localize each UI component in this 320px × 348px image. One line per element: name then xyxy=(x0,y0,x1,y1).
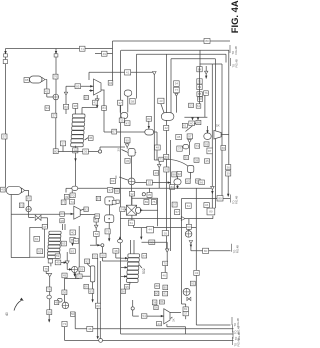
funnel valve xyxy=(153,72,157,75)
wire CV4 bottom xyxy=(166,120,168,249)
svg-text:37: 37 xyxy=(108,188,112,192)
svg-text:80: 80 xyxy=(218,196,222,200)
wire xyxy=(101,247,103,261)
svg-text:40: 40 xyxy=(1,188,5,192)
valve bow xyxy=(187,297,191,300)
wire xyxy=(95,236,97,245)
node box xyxy=(44,266,49,271)
svg-text:76: 76 xyxy=(54,75,58,79)
svg-text:65: 65 xyxy=(62,242,66,246)
node stream 36 box xyxy=(102,106,107,111)
valve xyxy=(64,92,67,95)
node box xyxy=(118,100,123,105)
svg-text:78: 78 xyxy=(47,287,51,291)
node stream 14 box xyxy=(102,51,108,56)
svg-text:44: 44 xyxy=(148,228,152,232)
node box xyxy=(154,291,159,295)
node big box on bus xyxy=(207,148,213,154)
svg-text:66: 66 xyxy=(85,285,89,289)
wire xyxy=(227,176,229,196)
node box xyxy=(130,98,135,104)
node stream 16 box xyxy=(204,39,210,44)
wire y198 line xyxy=(182,198,218,200)
wire diagonal xyxy=(186,122,198,132)
node box left edge xyxy=(110,179,115,184)
node box xyxy=(194,158,199,162)
wire xyxy=(119,105,121,112)
svg-text:89: 89 xyxy=(145,200,149,204)
wire T1 left drop xyxy=(65,86,67,92)
node box xyxy=(83,149,89,154)
mixer circle xyxy=(72,266,78,272)
vessel small drum xyxy=(127,149,136,156)
wire y329 line xyxy=(75,328,233,330)
node box right of T1 xyxy=(84,95,88,99)
wire CVc out right xyxy=(154,131,157,133)
column 400 trays xyxy=(47,231,61,258)
node box xyxy=(70,249,75,254)
node box chain xyxy=(197,67,202,72)
node box xyxy=(159,157,164,161)
node box xyxy=(94,217,99,222)
wire xyxy=(123,119,125,122)
svg-text:38: 38 xyxy=(153,301,157,305)
svg-text:35: 35 xyxy=(148,193,152,197)
node box on line xyxy=(170,185,175,190)
svg-text:84: 84 xyxy=(102,106,106,110)
junction circle small xyxy=(101,244,104,247)
svg-text:53: 53 xyxy=(148,181,152,185)
svg-text:65: 65 xyxy=(38,249,42,253)
svg-text:48: 48 xyxy=(55,301,59,305)
svg-text:73: 73 xyxy=(62,200,66,204)
wire thin col down xyxy=(92,282,94,302)
wire chain xyxy=(199,67,201,104)
node box xyxy=(26,196,31,201)
svg-text:45: 45 xyxy=(89,136,93,140)
wire col top risers xyxy=(62,224,64,230)
wire xyxy=(157,198,159,226)
svg-text:FIG.4B: FIG.4B xyxy=(235,196,239,204)
node box xyxy=(189,103,194,107)
wire xyxy=(103,90,105,106)
node box xyxy=(154,306,158,310)
vessel 20 capsule xyxy=(30,76,46,83)
svg-text:90: 90 xyxy=(101,253,105,257)
flow arrow xyxy=(4,51,6,54)
wire xyxy=(96,102,98,107)
svg-text:98: 98 xyxy=(25,78,29,82)
node box xyxy=(146,180,152,185)
wire arrow into CVc xyxy=(148,118,150,129)
wire xyxy=(126,147,128,148)
enclosure box xyxy=(30,227,45,257)
wire T3 out xyxy=(170,311,181,313)
node label box pointer xyxy=(120,207,125,212)
svg-text:37: 37 xyxy=(53,114,57,118)
wire xyxy=(108,205,110,215)
node box xyxy=(172,172,177,177)
node box xyxy=(46,287,51,291)
svg-text:49: 49 xyxy=(63,274,67,278)
node box below mixer xyxy=(128,220,134,225)
svg-text:70: 70 xyxy=(71,193,75,197)
valve tri xyxy=(48,273,52,276)
wire up from junction xyxy=(99,147,101,150)
node box xyxy=(204,203,209,208)
wire xyxy=(189,143,191,155)
wire end + TO FIG 4B xyxy=(223,198,230,200)
wire xyxy=(74,273,76,276)
node box xyxy=(176,134,182,139)
node box pair xyxy=(183,307,188,311)
wire xyxy=(185,316,187,319)
node box xyxy=(175,210,180,215)
node box xyxy=(197,84,202,89)
wire xyxy=(156,150,158,160)
node box xyxy=(163,291,168,296)
wire T1 bottom out xyxy=(96,95,98,99)
TO FIG 4B xyxy=(233,337,241,347)
node box xyxy=(53,149,58,154)
wire mixer down xyxy=(131,185,133,205)
node box xyxy=(105,229,110,234)
svg-text:75: 75 xyxy=(152,200,156,204)
funnel xyxy=(188,139,192,142)
node stream box xyxy=(1,187,6,192)
wire manifold xyxy=(184,116,207,118)
wire xyxy=(164,266,166,273)
wire pump bus xyxy=(55,49,57,95)
node box xyxy=(172,202,177,207)
svg-text:81: 81 xyxy=(184,307,188,311)
TO FIG 4B xyxy=(233,325,241,335)
svg-text:32: 32 xyxy=(130,192,134,196)
svg-text:2X: 2X xyxy=(117,148,121,152)
svg-text:45: 45 xyxy=(205,159,209,163)
node box above mixer xyxy=(129,191,134,196)
svg-text:59: 59 xyxy=(48,310,52,314)
node stream box xyxy=(52,113,57,118)
node box xyxy=(182,123,187,128)
valve sym xyxy=(211,186,215,189)
compressor T2 xyxy=(74,206,80,219)
svg-text:53: 53 xyxy=(189,104,193,108)
wire xyxy=(95,222,97,225)
node box xyxy=(70,237,75,242)
svg-text:80: 80 xyxy=(54,149,58,153)
pump ellipse xyxy=(185,231,192,238)
svg-text:46: 46 xyxy=(205,203,209,207)
wire right-edge bus x228.8 xyxy=(228,50,230,164)
wire under mixer xyxy=(120,218,213,220)
vessel capsule next to mixer xyxy=(135,207,141,213)
node box xyxy=(55,254,60,258)
svg-text:98: 98 xyxy=(173,173,177,177)
svg-text:36: 36 xyxy=(88,327,92,331)
svg-text:69: 69 xyxy=(111,179,115,183)
wire line y72 xyxy=(89,71,153,73)
wire xyxy=(127,96,129,112)
column 502 trays xyxy=(127,254,140,283)
node stream 30 box xyxy=(73,104,78,109)
node box xyxy=(74,239,79,244)
wire xyxy=(82,275,90,277)
wire riser x89 xyxy=(88,72,90,80)
wire oval drop xyxy=(71,190,73,193)
node box xyxy=(147,226,154,233)
valve tick xyxy=(175,93,178,96)
node box pair xyxy=(187,134,192,139)
wire oval right long xyxy=(78,187,211,189)
TO FIG 4B mid-bottom xyxy=(233,331,241,341)
svg-text:77: 77 xyxy=(175,88,179,92)
svg-text:FIG.4B: FIG.4B xyxy=(235,245,239,253)
node box xyxy=(204,142,209,147)
svg-text:FIG.4B: FIG.4B xyxy=(237,326,241,334)
wire xyxy=(205,66,207,71)
wire col bottom xyxy=(50,259,52,266)
TO FIG 4B xyxy=(232,317,240,327)
vessel oval xyxy=(174,179,181,185)
flow arrow out xyxy=(140,209,143,211)
flow arrow xyxy=(168,181,171,183)
wire bus corner to bottom line xyxy=(121,333,234,335)
node box w/ drive xyxy=(161,273,167,279)
svg-text:87: 87 xyxy=(27,197,31,201)
node box xyxy=(125,158,130,163)
node box xyxy=(217,196,223,201)
node small box xyxy=(60,219,64,223)
wire second horizontal xyxy=(134,227,197,229)
pump circle xyxy=(183,288,190,295)
node box xyxy=(89,289,94,293)
svg-text:66: 66 xyxy=(222,146,226,150)
wire top header line xyxy=(6,48,113,50)
svg-text:99: 99 xyxy=(126,138,130,142)
svg-text:73: 73 xyxy=(196,144,200,148)
wire col C3 bottom xyxy=(129,282,131,285)
svg-text:36: 36 xyxy=(227,165,231,169)
wire xyxy=(126,143,128,144)
valve flag xyxy=(205,71,208,74)
wire xyxy=(188,219,190,225)
svg-text:83: 83 xyxy=(96,304,100,308)
node box xyxy=(203,248,209,253)
svg-text:38: 38 xyxy=(60,219,64,223)
svg-text:95: 95 xyxy=(125,285,129,289)
node box xyxy=(195,144,200,148)
svg-text:81: 81 xyxy=(35,237,39,241)
wire left feed bus xyxy=(5,49,7,188)
svg-text:42: 42 xyxy=(45,89,49,93)
funnel valve xyxy=(125,144,129,148)
wire T4 out xyxy=(221,134,229,136)
wire xyxy=(95,228,97,231)
svg-text:39: 39 xyxy=(195,158,199,162)
vessel drum B xyxy=(105,215,114,223)
tick box xyxy=(54,54,58,57)
node box left of col xyxy=(60,141,65,146)
svg-text:83: 83 xyxy=(186,179,190,183)
node box xyxy=(155,145,161,150)
vessel capsule small B xyxy=(121,112,128,118)
wire bus 196 xyxy=(195,188,197,325)
node label box xyxy=(84,207,88,212)
node box xyxy=(186,203,192,208)
wire xyxy=(141,209,158,211)
svg-text:66: 66 xyxy=(96,214,100,218)
wire y132 line xyxy=(104,131,145,133)
svg-text:48: 48 xyxy=(156,146,160,150)
node box xyxy=(186,179,191,184)
node box pointer xyxy=(61,241,66,246)
wire right edge xyxy=(78,226,80,279)
svg-text:FIG.4B: FIG.4B xyxy=(235,59,239,67)
svg-text:75: 75 xyxy=(45,267,49,271)
node label pointer xyxy=(84,284,89,289)
node box above col xyxy=(42,224,47,229)
node box xyxy=(62,321,67,326)
node box X xyxy=(186,224,191,229)
svg-text:81: 81 xyxy=(163,292,167,296)
svg-text:85: 85 xyxy=(76,84,80,88)
svg-text:37: 37 xyxy=(119,101,123,105)
svg-text:41: 41 xyxy=(93,101,97,105)
node stream 34 box xyxy=(93,100,98,105)
wire nested bus 3 xyxy=(137,53,227,55)
wire nested bus 2 xyxy=(121,49,229,51)
wire nested bus 3 drop xyxy=(225,54,227,62)
vessel tiny oval xyxy=(47,295,51,299)
svg-text:60: 60 xyxy=(85,96,89,100)
svg-text:47: 47 xyxy=(43,225,47,229)
svg-text:80: 80 xyxy=(204,249,208,253)
wire xyxy=(28,212,30,218)
wire xyxy=(177,176,179,179)
vessel small xyxy=(204,133,211,139)
svg-text:69: 69 xyxy=(115,189,119,193)
wire xyxy=(175,96,177,112)
valve xyxy=(94,225,98,228)
node box xyxy=(64,194,69,199)
node box xyxy=(125,284,130,289)
node box xyxy=(196,179,201,183)
wire xyxy=(131,215,133,220)
node box xyxy=(119,118,124,123)
node box right bus xyxy=(221,146,226,151)
node box xyxy=(163,285,168,290)
svg-text:93: 93 xyxy=(164,231,168,235)
wire xyxy=(166,252,168,261)
node box on right bus A xyxy=(226,165,231,170)
wire left drop to enclosure xyxy=(10,195,12,258)
TO FIG 4B xyxy=(231,244,239,254)
wire T2 out xyxy=(80,214,96,216)
svg-text:63: 63 xyxy=(90,289,94,293)
svg-text:73: 73 xyxy=(63,322,67,326)
node box xyxy=(159,300,164,304)
wire col bottom right xyxy=(56,262,67,264)
tick box xyxy=(4,54,8,57)
node box xyxy=(164,167,169,172)
wire main top line xyxy=(113,40,231,42)
node box xyxy=(177,146,182,151)
node box 88 xyxy=(124,138,130,143)
wire funnel drop xyxy=(153,75,155,160)
svg-text:68: 68 xyxy=(199,97,203,101)
node stream 26 box xyxy=(125,70,131,75)
pump P1 xyxy=(53,94,59,100)
node box xyxy=(199,180,205,185)
svg-text:80: 80 xyxy=(209,210,213,214)
node box xyxy=(174,81,180,87)
svg-text:87: 87 xyxy=(208,149,212,153)
wire mixer right xyxy=(135,182,171,184)
svg-text:74: 74 xyxy=(121,207,125,211)
node box xyxy=(92,254,97,259)
wire pair buses down xyxy=(97,258,99,338)
node box below line xyxy=(147,193,152,198)
compressor T3 xyxy=(164,309,170,324)
node box xyxy=(125,121,130,126)
svg-text:66: 66 xyxy=(200,180,204,184)
svg-text:56: 56 xyxy=(165,155,169,159)
svg-text:68: 68 xyxy=(197,121,201,125)
wire xyxy=(64,278,66,290)
svg-text:38: 38 xyxy=(74,104,78,108)
vessel tiny oval on bus xyxy=(118,239,123,243)
svg-text:37: 37 xyxy=(184,312,188,316)
wire pump line right xyxy=(58,151,98,153)
wire xyxy=(131,196,133,205)
wire y251 line xyxy=(191,250,231,252)
node box xyxy=(204,91,209,96)
thin column xyxy=(90,266,94,282)
svg-text:502: 502 xyxy=(142,268,146,274)
wire xyxy=(62,146,64,152)
node stream 12 box xyxy=(80,46,86,51)
wire oval left xyxy=(66,187,72,189)
mixer crossed box xyxy=(126,205,136,215)
svg-text:51: 51 xyxy=(130,221,134,225)
svg-text:37: 37 xyxy=(61,142,65,146)
wire xyxy=(190,172,192,178)
svg-text:93: 93 xyxy=(84,207,88,211)
funnel xyxy=(165,249,169,252)
node small box xyxy=(19,203,24,208)
node box inside A xyxy=(34,236,40,241)
wire xyxy=(49,277,51,310)
svg-text:97: 97 xyxy=(188,134,192,138)
fitting xyxy=(48,259,52,263)
wire drop arrow xyxy=(140,228,142,239)
svg-text:93: 93 xyxy=(187,225,191,229)
node box xyxy=(112,129,117,134)
svg-text:40: 40 xyxy=(71,231,75,235)
wire bus x215 xyxy=(214,59,216,208)
node box xyxy=(47,310,52,315)
svg-text:30: 30 xyxy=(63,290,67,294)
svg-text:83: 83 xyxy=(71,249,75,253)
vessel capsule small A xyxy=(124,90,132,96)
node box xyxy=(69,200,74,205)
svg-text:87: 87 xyxy=(97,197,101,201)
wire elbow to column xyxy=(82,107,97,109)
node box xyxy=(55,260,61,265)
wire xyxy=(63,295,65,303)
svg-text:76: 76 xyxy=(204,91,208,95)
